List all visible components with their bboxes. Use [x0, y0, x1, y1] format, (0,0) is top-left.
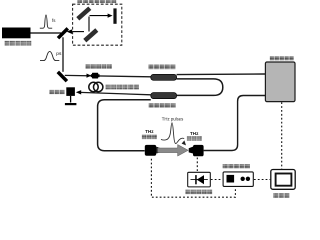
dashed wire emitter to lock-in reference — [151, 159, 235, 198]
THz detector — [189, 147, 193, 154]
label guangxian fenluqi top — [149, 65, 176, 70]
fiber splitter 2 — [151, 93, 177, 99]
label fusheqi — [142, 135, 157, 140]
svg-text:THz: THz — [190, 131, 199, 136]
fiber delay line box — [265, 62, 295, 102]
femtosecond laser box — [2, 28, 31, 39]
beamsplitter BS1 — [58, 28, 68, 38]
dashed wire detector to current amplifier — [196, 158, 198, 172]
label guangxian fenluqi bottom — [149, 103, 176, 108]
dispersion pre-compensation module dashed box — [73, 4, 122, 45]
fs pulse waveform — [40, 15, 52, 28]
label guangxian yanchixian — [270, 56, 294, 60]
dashed wire delay box to computer — [281, 102, 283, 169]
U-loop fiber splitter1 to splitter2 — [177, 79, 223, 96]
THz beam gray arrow — [158, 145, 189, 157]
ps pulse waveform — [40, 51, 59, 60]
lock-in amplifier box — [223, 172, 253, 187]
current amplifier box — [188, 172, 211, 187]
mirror M1 — [113, 8, 116, 23]
wire module to BS1 with left arrow — [71, 31, 84, 33]
wire BS1 down to BS2 — [62, 37, 64, 72]
wire splitter1 to delay line box — [177, 73, 266, 76]
emitter arm fiber loop — [98, 100, 151, 151]
dashed wire lock-in to computer — [254, 179, 270, 181]
svg-text:ps: ps — [56, 52, 62, 57]
svg-text:THz: THz — [145, 129, 154, 134]
label suoxiang fangdaqi — [223, 164, 250, 169]
label feimiao jiguangqi — [5, 41, 32, 46]
THz emitter — [145, 145, 156, 156]
monitor arm wire to power meter with left arrow — [80, 92, 151, 94]
wire laser to BS1 — [31, 32, 62, 34]
computer box — [271, 170, 295, 190]
wire BS2 to fiber coupler to splitter1 — [65, 75, 151, 76]
fiber splitter 1 — [151, 74, 177, 80]
PM fiber coil — [89, 82, 98, 91]
fiber coupler — [91, 74, 92, 77]
beam G2 to G1 — [88, 17, 90, 32]
label guangxian ouheqi — [86, 64, 112, 69]
label jisuanji — [273, 193, 289, 198]
svg-text:THz pulses: THz pulses — [162, 117, 184, 122]
grating G1 — [78, 8, 90, 19]
label tanceqi — [187, 136, 202, 140]
power meter — [66, 87, 75, 96]
THz pulse waveform — [161, 123, 184, 144]
wire detector to delay line box — [204, 96, 266, 151]
grating G2 — [85, 30, 97, 41]
label dianliu fangdaqi — [185, 190, 212, 195]
label gonglvji — [49, 90, 64, 94]
label sesan yubuchang mokuai — [78, 0, 117, 3]
mirror BS2 — [58, 72, 67, 81]
label baopian danmo guangxian — [106, 85, 139, 90]
beam G1 to M1 with right arrow — [90, 15, 109, 17]
dashed wire current amp to lock-in — [211, 179, 223, 181]
